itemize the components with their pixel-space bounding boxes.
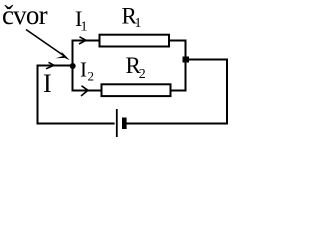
wire: R2 right lead bbox=[171, 90, 187, 92]
arrow I on wire bbox=[46, 62, 54, 69]
arrow I2 on wire bbox=[81, 86, 88, 96]
wire: battery to bottom right corner bbox=[127, 123, 229, 125]
svg-text:2: 2 bbox=[139, 67, 146, 82]
wire: bottom left to battery bbox=[37, 123, 115, 125]
wire: node to left corner (current I feed) bbox=[37, 65, 74, 67]
svg-text:I: I bbox=[80, 58, 87, 82]
svg-text:1: 1 bbox=[135, 16, 142, 31]
battery: short thick plate bbox=[122, 118, 127, 130]
svg-text:2: 2 bbox=[88, 69, 95, 84]
battery: long thin plate bbox=[116, 109, 118, 137]
wire: left vertical bbox=[37, 65, 39, 125]
wire: branch vertical through node bbox=[72, 40, 74, 92]
resistor R2 bbox=[102, 84, 171, 96]
wire: junction vertical (between R1 and R2 rows) bbox=[185, 40, 187, 92]
wire: junction to right corner bbox=[189, 59, 228, 61]
node dot (čvor) bbox=[70, 63, 76, 69]
wire: right vertical bbox=[226, 59, 228, 125]
wire: R1 left lead bbox=[72, 40, 100, 42]
junction square bbox=[183, 57, 190, 63]
label R2 bbox=[126, 53, 146, 82]
svg-text:I: I bbox=[43, 69, 52, 98]
wire: R1 right lead bbox=[169, 40, 187, 42]
resistor R1 bbox=[100, 35, 170, 47]
label I2 bbox=[80, 58, 94, 84]
label R1 bbox=[122, 3, 142, 31]
svg-text:1: 1 bbox=[81, 20, 88, 35]
arrow from čvor to node bbox=[26, 30, 70, 61]
wire: R2 left lead bbox=[72, 90, 102, 92]
label I1 bbox=[75, 6, 88, 35]
svg-text:čvor: čvor bbox=[2, 0, 48, 30]
arrow I1 on wire bbox=[79, 37, 86, 44]
